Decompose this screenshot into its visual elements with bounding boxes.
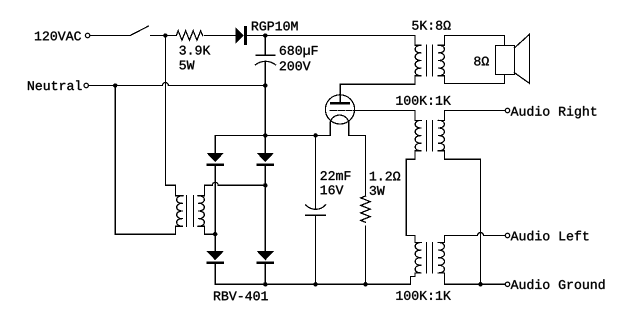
transformer T2 secondary winding: [438, 120, 444, 150]
diode D1 RGP10M: [235, 27, 244, 44]
transformer T3 secondary winding: [438, 242, 444, 272]
wire 120VAC to switch: [90, 35, 130, 37]
label 5W: [180, 61, 195, 70]
junction Neutral/C1: [263, 83, 267, 87]
wire T1 secondary bottom to speaker: [438, 75, 505, 84]
transformer T3 core: [427, 243, 433, 273]
capacitor C1 680uF: [255, 36, 275, 86]
junction bridge right / rail: [263, 133, 267, 137]
wire plate lead: [339, 84, 341, 101]
wire filament left leg: [329, 122, 331, 135]
bridge left branch: [214, 135, 216, 284]
diode BR1b: [257, 153, 275, 162]
wire R1 to D1: [205, 35, 236, 37]
transformer T3 primary winding: [411, 242, 422, 284]
wire T4 secondary top with hop: [198, 182, 265, 195]
transformer T2 core: [427, 120, 433, 150]
label 3.9K 5W: [180, 46, 211, 55]
label 200V: [280, 61, 311, 70]
transformer T4 core: [187, 196, 194, 226]
transformer T1 secondary winding: [438, 45, 444, 75]
switch S1: [130, 26, 176, 35]
wire T2 secondary bottom to ground: [438, 151, 481, 284]
label 100K:1K top: [396, 96, 450, 105]
wire T1 secondary top to speaker: [438, 36, 505, 46]
junction switch/live: [163, 33, 167, 37]
tube V1 grid dashes: [330, 110, 351, 112]
junction rail / R2 bottom: [363, 282, 367, 286]
diode BR1a: [206, 153, 224, 162]
label 680uF: [280, 46, 318, 57]
junction T2 bottom / ground line: [478, 282, 482, 286]
label 100K:1K bottom: [396, 291, 450, 300]
diode BR1c: [206, 251, 224, 260]
transformer T4 primary winding: [115, 196, 183, 234]
label 16V: [321, 185, 344, 194]
wire T3 secondary top to Audio Left with hop: [438, 233, 505, 243]
junction T4 sec bottom / bridge left: [213, 232, 217, 236]
label 8ohm: [474, 57, 489, 66]
diode BR1d: [257, 251, 275, 260]
tube V1 filament dome: [330, 115, 349, 122]
tube V1 envelope: [325, 95, 354, 124]
junction rail / bridge right: [263, 282, 267, 286]
ground rail bottom: [215, 283, 410, 285]
terminal Audio Ground: [505, 282, 509, 286]
junction Neutral/T4: [113, 83, 117, 87]
wire T4 secondary bottom: [198, 226, 215, 234]
label 22mF: [321, 171, 351, 180]
wire R2 bottom: [365, 226, 367, 284]
label Neutral: [28, 80, 82, 90]
resistor R1: [176, 31, 202, 40]
junction rail / C2 bottom: [313, 282, 317, 286]
wire live down to T4 primary top: [165, 36, 183, 196]
label 3W: [370, 186, 385, 195]
capacitor C2 22mF: [306, 135, 326, 284]
resistor R2: [361, 196, 370, 222]
terminal Audio Left: [505, 233, 509, 237]
B+ rail top: [215, 134, 330, 136]
label Audio Ground: [511, 279, 605, 289]
label Audio Right: [511, 106, 597, 118]
terminal Neutral: [84, 83, 88, 87]
wire neutral down to T4 primary bottom: [114, 86, 116, 235]
wire T3 secondary bottom to Audio Ground: [438, 273, 505, 284]
label 5K:8ohm: [412, 21, 450, 30]
junction rail / C2: [313, 133, 317, 137]
label RBV-401: [214, 291, 268, 300]
speaker LS1: [496, 46, 515, 75]
wire Neutral with hop: [89, 83, 266, 86]
transformer T4 secondary winding: [198, 196, 204, 226]
transformer T2 primary winding: [406, 120, 421, 242]
label RGP10M: [252, 21, 298, 30]
junction T4 sec top / bridge right: [263, 183, 267, 187]
transformer T1 core: [427, 45, 433, 75]
junction wire/C1: [263, 33, 267, 37]
tube V1 plate: [330, 102, 350, 104]
wire grid to T2: [353, 111, 421, 121]
bridge right branch: [264, 86, 266, 285]
label 120VAC: [35, 31, 81, 40]
label 1.2ohm: [370, 172, 400, 181]
wire filament right leg: [349, 122, 366, 196]
wire T2 secondary top to Audio Right: [438, 111, 505, 121]
label Audio Left: [511, 231, 589, 241]
terminal Audio Right: [505, 108, 509, 112]
wire D1 to T1 and plate feed: [247, 36, 421, 85]
terminal 120VAC: [85, 33, 89, 37]
